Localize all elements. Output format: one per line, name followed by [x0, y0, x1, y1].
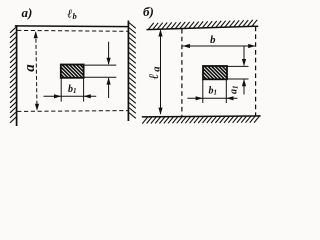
b1 right arrow (figure b) [226, 96, 233, 100]
b1 right arrow (figure a) [84, 94, 91, 98]
top slab edge solid line (figure a) [15, 25, 129, 28]
dimension l_a bottom arrow [158, 108, 162, 115]
loaded area hatched rectangle (figure a) [61, 65, 84, 78]
b1 dimension line (figure a) [44, 95, 97, 97]
svg-text:b1: b1 [209, 86, 218, 97]
rect height dimension upper tail [108, 42, 110, 64]
top wall line (figure b) [147, 26, 259, 29]
svg-text:ℓb: ℓb [67, 7, 76, 22]
b1 extension line right (figure b) [225, 80, 227, 103]
svg-text:b: b [210, 34, 216, 46]
dimension b horizontal line [183, 45, 256, 47]
right wall edge line [127, 21, 129, 122]
rect height dimension lower tail [108, 78, 110, 98]
dimension b left arrow [183, 44, 190, 48]
dimension a1 up arrow [242, 79, 246, 86]
b1 left arrow (figure b) [196, 96, 203, 100]
svg-text:а): а) [22, 5, 33, 20]
right dashed slab edge (figure b) [255, 27, 257, 116]
left dashed slab edge (figure b) [181, 29, 183, 116]
top dashed slab line [17, 29, 128, 32]
right wall hatching [129, 23, 136, 119]
bottom wall line (figure b) [142, 116, 261, 117]
top wall hatching [149, 20, 258, 29]
dimension a top arrow [34, 31, 38, 38]
rectangle bottom edge extension [84, 76, 117, 78]
rect height dimension down arrow [107, 58, 111, 65]
dimension b right arrow [248, 44, 255, 48]
bottom wall hatching [142, 116, 259, 123]
b1 dimension line (figure b) [187, 97, 237, 99]
svg-text:a: a [22, 64, 38, 72]
rectangle bottom edge extension (figure b) [227, 78, 249, 80]
rectangle hatch fill [61, 65, 84, 78]
dimension l_a vertical line [160, 30, 162, 114]
loaded area hatched rectangle (figure b) [203, 66, 227, 79]
svg-text:b1: b1 [68, 84, 77, 95]
rectangle hatch fill (figure b) [203, 66, 227, 79]
rectangle top edge extension [84, 64, 117, 66]
b1 extension line left (figure b) [202, 80, 204, 103]
rect height dimension up arrow [107, 77, 111, 84]
bottom dashed slab line [17, 110, 128, 113]
left wall edge line [16, 25, 18, 126]
dimension a1 upper tail [243, 47, 245, 66]
rectangle top edge extension (figure b) [227, 65, 249, 67]
dimension a1 down arrow [242, 59, 246, 66]
svg-text:б): б) [143, 4, 154, 19]
b1 left arrow (figure a) [54, 94, 61, 98]
left wall hatching [10, 27, 16, 123]
dimension a bottom arrow [35, 104, 39, 111]
b1 extension line right (figure a) [83, 78, 85, 101]
dimension a1 lower tail [243, 80, 245, 95]
dimension l_a top arrow [158, 29, 162, 36]
dimension a vertical line [36, 33, 37, 109]
svg-text:a1: a1 [229, 86, 240, 95]
b1 extension line left (figure a) [60, 78, 62, 101]
